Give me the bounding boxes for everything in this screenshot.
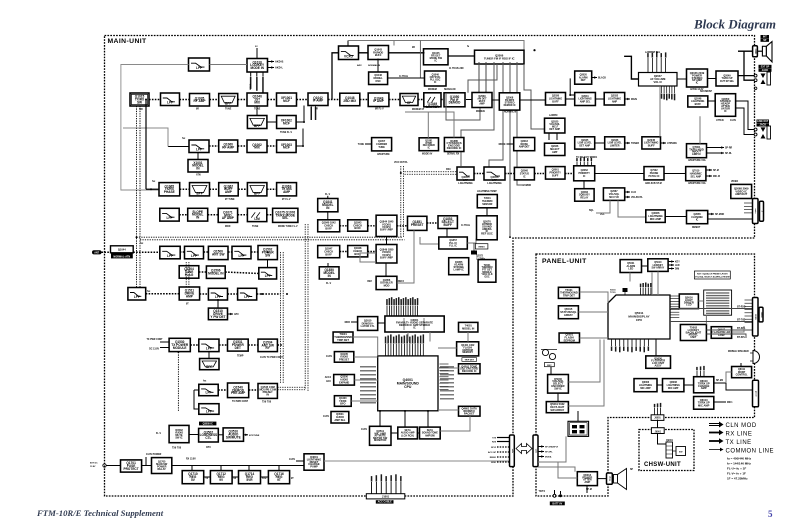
block Q1040 1ST MIX (247, 93, 268, 106)
svg-text:IC: IC (413, 326, 416, 330)
block Q1712 REG 9V (210, 471, 232, 484)
speaker label INT SP 2 (761, 39, 770, 42)
svg-text:BUFF: BUFF (552, 100, 559, 103)
svg-text:RELAY: RELAY (158, 468, 167, 471)
jack label EXT SP (759, 65, 772, 69)
wire q7002-q7010 (664, 173, 686, 175)
svg-text:BUFF: BUFF (354, 227, 361, 230)
svg-text:11 TKHz: 11 TKHz (399, 76, 409, 78)
wire 13.8 rail (172, 465, 310, 467)
filter LPF F1012 (259, 268, 277, 279)
svg-text:ASSY: ASSY (655, 364, 662, 368)
svg-text:AMP SEL: AMP SEL (334, 419, 346, 422)
svg-text:UNIT: UNIT (690, 335, 697, 339)
block Q1851 PRESET (408, 216, 427, 230)
svg-text:5VR: 5VR (262, 478, 267, 480)
svg-text:LPF: LPF (167, 254, 173, 258)
block Q1847 BUFF (318, 246, 340, 258)
wire pll k (397, 230, 414, 283)
wire pll b (340, 225, 348, 227)
wire pa b (219, 344, 228, 346)
block Q2045 BUFF (642, 137, 661, 149)
block Q2008 FM MPX (499, 93, 520, 110)
wire pwr-lpf (267, 260, 269, 268)
svg-text:BFO: BFO (340, 403, 345, 406)
svg-text:DEMOD IC: DEMOD IC (504, 104, 516, 107)
svg-text:PRESET: PRESET (411, 223, 424, 227)
wire q1046 riser (419, 41, 421, 79)
svg-text:ACC: ACC (326, 380, 331, 383)
wire q5030-key (557, 393, 559, 402)
wire ex out (257, 293, 281, 295)
svg-text:SW: SW (137, 100, 142, 104)
junction fu (533, 49, 535, 51)
svg-text:9R: 9R (412, 47, 415, 49)
wire tx a (180, 188, 190, 190)
wire j9001-chsw (658, 434, 667, 445)
svg-text:ATN: ATN (196, 174, 201, 177)
svg-text:DEMOD: DEMOD (449, 101, 461, 105)
block Q3010 DEMODULATOR CTL (358, 317, 378, 331)
svg-text:Q9001: Q9001 (666, 440, 674, 442)
filter LPF F1002 (161, 93, 180, 106)
wire bus pll-v1 (304, 224, 306, 390)
block Q1043 RX MOD BUFF (368, 46, 389, 60)
filter LPF F1011 (232, 246, 251, 258)
svg-text:LPF: LPF (196, 148, 202, 152)
svg-text:13.8V TX PWR CONT: 13.8V TX PWR CONT (260, 357, 283, 359)
filter CF1001 (400, 94, 418, 106)
block Q1042 IF AMP (308, 93, 328, 106)
speaker label INT SP (761, 35, 770, 39)
svg-text:J2001: J2001 (754, 48, 756, 55)
block Q3507 LOUDNESS (199, 428, 219, 442)
svg-text:ATRV/RE: ATRV/RE (667, 142, 677, 145)
svg-text:MODEM: MODEM (428, 89, 437, 91)
svg-text:APERTURE VOL: APERTURE VOL (688, 159, 707, 162)
svg-text:LAMP IC: LAMP IC (454, 269, 464, 272)
svg-text:AND-SUB ST-M: AND-SUB ST-M (645, 182, 662, 185)
wire xf3 up (296, 106, 304, 123)
svg-text:MODA: MODA (545, 456, 552, 459)
svg-text:13.8V: 13.8V (289, 459, 295, 461)
wire q2045 out (661, 142, 667, 144)
wire mic e (726, 383, 753, 390)
svg-text:AMP: AMP (225, 190, 232, 194)
svg-text:LPF: LPF (206, 391, 212, 395)
svg-text:panel: panel (755, 391, 757, 397)
svg-text:COMMON LINE: COMMON LINE (726, 449, 775, 455)
wire aud b (218, 434, 223, 436)
svg-text:MIX: MIX (254, 146, 261, 150)
wire key-cpu a (657, 271, 659, 295)
svg-text:FL-V: FL-V (326, 283, 332, 285)
block SE7A AUDIO AMP L (398, 427, 418, 439)
pin bus Q1010 outputs (250, 72, 264, 93)
wire mic b (684, 384, 694, 386)
pin bus Q2062 top (576, 157, 592, 166)
wire q2018 in (507, 143, 514, 145)
block Q6013 SP MIC AMP (694, 397, 714, 410)
svg-text:TUNE: TUNE (225, 109, 232, 111)
svg-text:MIC AMP: MIC AMP (650, 217, 662, 221)
svg-text:MOD: MOD (491, 462, 496, 464)
wire alarm down (570, 78, 575, 95)
svg-text:LAMP/SP SEL: LAMP/SP SEL (645, 51, 661, 54)
block Q1853 SELECT BUFF (438, 216, 457, 229)
wire mic d (714, 401, 726, 403)
wire jpanel MODA (538, 455, 544, 457)
svg-text:LPF: LPF (191, 254, 197, 258)
wire vol o2 (625, 196, 630, 198)
svg-text:9V: 9V (234, 478, 237, 480)
svg-text:9T FL-V: 9T FL-V (282, 199, 291, 201)
wire cpu-sea (404, 411, 406, 427)
svg-text:Q1044: Q1044 (118, 248, 126, 252)
svg-text:IC: IC (435, 59, 438, 62)
oscillator VCXO Q1043 (339, 46, 359, 60)
wire AKD-L (268, 66, 275, 68)
filter LPF F1014 (208, 288, 227, 300)
block Q3511 MIC AF MUTE (370, 426, 392, 445)
svg-text:LPF: LPF (167, 216, 173, 220)
svg-text:MIX: MIX (254, 100, 261, 104)
wire amp-bpf (210, 99, 219, 101)
svg-text:FL-V: FL-V (156, 433, 162, 435)
filter LPF F1018 (199, 384, 218, 395)
svg-text:11 TKU/fu 8M: 11 TKU/fu 8M (449, 68, 464, 70)
wire tx c (238, 188, 247, 190)
wire bus tune-v2 (188, 262, 190, 288)
wire clon-jack (708, 218, 753, 220)
svg-text:TONER: TONER (631, 143, 639, 145)
connector MIC jack panel (753, 380, 759, 407)
svg-text:MCF: MCF (283, 99, 290, 103)
wire tx b (210, 188, 219, 190)
block Q2066 MIC AMP (646, 210, 665, 223)
wire spconn-spkr (757, 50, 762, 52)
wire pll-flv (327, 196, 329, 199)
block Q2035 LOW DET (575, 137, 595, 149)
wire jpanel SP-SPL (538, 450, 544, 452)
wire af-spamp (677, 78, 687, 80)
svg-text:REMO: REMO (490, 457, 497, 459)
wire att-line1 (736, 101, 755, 130)
svg-text:KEY: SQUELCH PRESET+PUSH: KEY: SQUELCH PRESET+PUSH (697, 273, 728, 275)
svg-text:SW IC: SW IC (554, 386, 562, 390)
svg-text:AMP/SW: AMP/SW (425, 435, 436, 438)
wire tune in (365, 143, 372, 145)
wire light-lcd (698, 300, 703, 302)
svg-text:J5001: J5001 (754, 314, 756, 321)
svg-text:VOL/DATA: VOL/DATA (631, 196, 643, 199)
block Q2067 VOL SQL VR (603, 188, 624, 201)
wire bus pa-r1 (280, 252, 282, 384)
wire modp-mic (726, 372, 732, 383)
filter BPF F1004 (247, 116, 267, 129)
svg-text:PANEL-UNIT: PANEL-UNIT (542, 258, 587, 265)
block Q2056 LPF (484, 167, 505, 185)
block Q1502 POWER SW (258, 246, 277, 260)
wire pa in2 (160, 347, 169, 349)
wire bus tune-v1 (185, 262, 187, 288)
svg-text:TX LINE: TX LINE (726, 440, 752, 446)
svg-text:SOUND/SP: SOUND/SP (700, 91, 712, 93)
svg-text:KEY: KEY (675, 262, 680, 264)
svg-text:APERTURE: APERTURE (377, 153, 390, 156)
wire rx2 a (218, 389, 227, 391)
svg-text:AMP: AMP (701, 386, 707, 390)
pin bus Q4001 top (385, 334, 424, 356)
svg-text:MODEM 9T: MODEM 9T (412, 109, 425, 111)
block Q4601 DATA WORM (459, 406, 481, 416)
svg-text:MODE: MODE (499, 144, 506, 146)
svg-text:MAIN-UNIT: MAIN-UNIT (108, 38, 148, 45)
block Q1840 CHECK BUFF (318, 220, 340, 232)
wire flash-cpu (580, 337, 609, 339)
block Q5017 LAMP (711, 327, 731, 339)
wire r3 in (180, 146, 189, 148)
wire Q1010 top (256, 48, 258, 59)
svg-text:J1001: J1001 (382, 495, 390, 499)
svg-text:LPF: LPF (244, 295, 250, 299)
wire q7010 o1 (706, 169, 712, 171)
block Q5021 FLASH (559, 333, 579, 343)
wire osc b (389, 52, 425, 54)
svg-text:MOBILE SPEAKER: MOBILE SPEAKER (728, 350, 749, 353)
wire osc a (359, 52, 369, 54)
wire jmain REMO (497, 456, 510, 458)
svg-text:IC: IC (724, 109, 727, 113)
wire af-spconn (738, 50, 753, 52)
wire jpanel-keypad (538, 436, 566, 462)
wire buff-att (708, 100, 715, 102)
svg-text:MODE: MODE (250, 83, 252, 90)
crystal Q1841 MODEL (318, 199, 338, 212)
svg-text:DC 13.8V: DC 13.8V (149, 349, 159, 351)
filter BPF F1003 (219, 94, 238, 107)
block Q1844 PLL VCO (376, 215, 397, 236)
filter LPF F1013 (128, 288, 146, 301)
svg-text:TX SELECT/ MON/1: TX SELECT/ MON/1 (576, 157, 598, 159)
block Q2070 HYBRID SOUND (477, 216, 498, 240)
block Q2018 NOISE AMP (514, 138, 535, 151)
svg-text:LAMP: LAMP (718, 334, 725, 337)
wire batt c (560, 491, 562, 494)
svg-text:Q2072: Q2072 (476, 256, 484, 258)
svg-text:PRESET: PRESET (339, 359, 350, 362)
wire bus h1 (137, 236, 403, 238)
svg-text:BUFF: BUFF (648, 144, 655, 148)
wire ant a (133, 251, 160, 253)
cable arrow interconnect (516, 444, 532, 454)
block T2001 THERMO (477, 195, 497, 208)
block Q1046 CRYSTAL PLL (425, 71, 447, 86)
svg-text:AKD-L: AKD-L (275, 66, 283, 70)
block Q2063 SQ BUSY RELAY (575, 189, 594, 202)
svg-text:LPF: LPF (134, 295, 140, 299)
svg-text:PATCH IC: PATCH IC (648, 175, 659, 178)
wire cpu-flash (438, 347, 457, 349)
block T5002 LCD KEY (680, 325, 706, 341)
svg-text:ATTEN: ATTEN (716, 119, 724, 122)
svg-text:CHSW-UNIT: CHSW-UNIT (644, 462, 681, 468)
wire cpu-q3511 (379, 411, 381, 426)
svg-text:VCO OUT/FL: VCO OUT/FL (394, 162, 409, 164)
wire mod b (208, 214, 219, 216)
wire q2006 o2 (485, 62, 487, 93)
wire ex a (146, 293, 180, 295)
block Q1073 LIMITER (247, 208, 266, 221)
block Q1048 2ND MIX (340, 93, 360, 106)
svg-text:MEMORY: MEMORY (462, 351, 473, 354)
block Q6010 TX RX CHANGE (694, 377, 714, 393)
svg-text:SW/MUTE: SW/MUTE (226, 436, 241, 440)
wire lpf-bpf (208, 352, 210, 359)
wire q2031-q2032 (595, 98, 604, 100)
filter BPF F1007 (247, 183, 267, 196)
svg-text:BUFF: BUFF (325, 228, 332, 231)
wire bus tx-l2 (139, 106, 141, 288)
svg-text:FL-U= fu + 1F: FL-U= fu + 1F (727, 467, 746, 471)
wire bus vco-pr (405, 172, 458, 174)
svg-text:VOL IC: VOL IC (653, 80, 662, 84)
pin bus J6001 (654, 403, 662, 415)
svg-text:BPF: BPF (225, 101, 231, 105)
block Q2061 PRIORITY BUFF (546, 167, 566, 180)
svg-text:NORMAL/M: NORMAL/M (368, 64, 380, 67)
wire tx riser (145, 100, 147, 190)
wire dtmf h (405, 112, 454, 115)
connector J5001 (753, 298, 759, 337)
svg-text:MODE/9: MODE/9 (476, 111, 486, 113)
svg-text:CPU: CPU (206, 447, 211, 449)
svg-text:9R: 9R (196, 109, 199, 111)
wire vol o1 (625, 191, 630, 193)
wire q2006 o4 (489, 62, 503, 167)
terminal BATT+ (553, 494, 556, 497)
block Q3601 RESET CHARGE (304, 454, 324, 470)
wire pa a (190, 344, 199, 346)
wire q2006 o7 (446, 93, 480, 121)
wire tx d (267, 188, 277, 190)
svg-text:13.8V: 13.8V (90, 466, 96, 468)
crystal X2001 (471, 243, 477, 255)
wire q2032 out (625, 98, 630, 100)
svg-text:SP-MOD: SP-MOD (715, 214, 725, 216)
legend arrow CLN MOD (709, 422, 724, 428)
block Q7010 HAND MIC (686, 167, 706, 181)
svg-text:TUNER FM IF RDS IF IC: TUNER FM IF RDS IF IC (484, 56, 515, 60)
connector J1002 main side (510, 435, 515, 467)
svg-text:AKD-B: AKD-B (275, 60, 283, 64)
wire tx in (146, 188, 159, 190)
svg-text:TRIP DET: TRIP DET (337, 338, 349, 342)
filter XF1001 MCF (277, 93, 297, 106)
wire xf2-mix2 (360, 99, 368, 101)
wire cpu-tone (438, 367, 459, 369)
block SE7A AUDIO AMP R (420, 427, 441, 439)
svg-text:OSC: OSC (375, 80, 381, 83)
pin bus Q5011 top (640, 283, 652, 296)
svg-text:fu = 400/440 MHz: fu = 400/440 MHz (727, 457, 752, 461)
wire jmain RX9 (497, 441, 510, 443)
block Q1049 LIMITER (424, 93, 441, 109)
wire t5002-lcd (705, 315, 707, 324)
block Q6006 MIC AMP (634, 379, 657, 392)
wire mic c (714, 382, 726, 384)
svg-text:LPF: LPF (206, 347, 212, 351)
svg-text:ACC2: ACC2 (325, 376, 332, 379)
wire osc c (377, 59, 379, 73)
terminal gnd sp (754, 87, 757, 90)
wire drv up (217, 300, 219, 308)
svg-text:LED: LED (628, 268, 633, 271)
wire q3105-cpu (354, 356, 378, 358)
svg-text:LPF: LPF (196, 66, 202, 70)
wire if tap down (256, 106, 258, 116)
wire lpf-x1001 (197, 153, 199, 160)
wire reg tap 2 (220, 466, 222, 471)
block Q1057 CARRIER TUNE (372, 138, 392, 151)
wire AKD-B (268, 60, 275, 62)
block Q1848 BUFF (348, 246, 368, 257)
svg-text:FL-V: FL-V (325, 194, 331, 196)
svg-text:MIC AMP: MIC AMP (640, 387, 651, 390)
svg-text:Y PW DET: Y PW DET (210, 315, 225, 319)
wire pll h (368, 251, 376, 253)
wire vco1-vco2 (386, 237, 388, 245)
block Q2062 PRIORITY IC (574, 166, 595, 181)
wire pr c (534, 173, 545, 175)
svg-text:DIM: DIM (675, 269, 679, 271)
speaker MOBILE SP (750, 351, 760, 364)
svg-text:BUFF: BUFF (695, 103, 702, 106)
wire dc tap (145, 457, 147, 466)
wire cpu-seb (427, 411, 429, 427)
wire pll l (467, 239, 476, 244)
wire se a (391, 432, 398, 434)
wire att riser (699, 116, 701, 143)
svg-text:BPF: BPF (196, 191, 202, 195)
wire rst rail (324, 460, 510, 462)
block Q6014 POWER ATTEN (577, 472, 597, 486)
legend arrow TX LINE (709, 438, 724, 443)
wire se out (440, 416, 470, 431)
svg-text:ENC: ENC (547, 365, 552, 367)
wire r3 c (267, 145, 277, 147)
svg-text:VIDEO: VIDEO (731, 181, 738, 183)
block Q2055 LPF (457, 167, 474, 185)
svg-text:SP-M: SP-M (713, 170, 719, 172)
wire aud a (189, 434, 199, 436)
wire bpf-xf3 (267, 121, 277, 123)
IC Q4001 MAIN SOUND CPU (378, 356, 438, 411)
block Q7001 MOD IN OUT (687, 144, 707, 158)
svg-text:AMP/DET: AMP/DET (519, 146, 530, 149)
svg-text:BT-TXD: BT-TXD (737, 320, 746, 322)
pin labels Q1042 below (311, 106, 317, 121)
pin bus Q5011 bottom (611, 340, 649, 353)
filter LPF F1001 (189, 58, 210, 71)
wire mix2-cf (389, 99, 400, 101)
svg-text:ATX/TUNE: ATX/TUNE (249, 434, 260, 437)
wire q5030-cpu (568, 340, 600, 383)
wire t4001-flash (467, 332, 469, 342)
pin bus Q2047 bottom (661, 86, 676, 100)
wire q5015-cpu (578, 311, 608, 313)
block Q1015 TX/RX SW (130, 93, 149, 106)
